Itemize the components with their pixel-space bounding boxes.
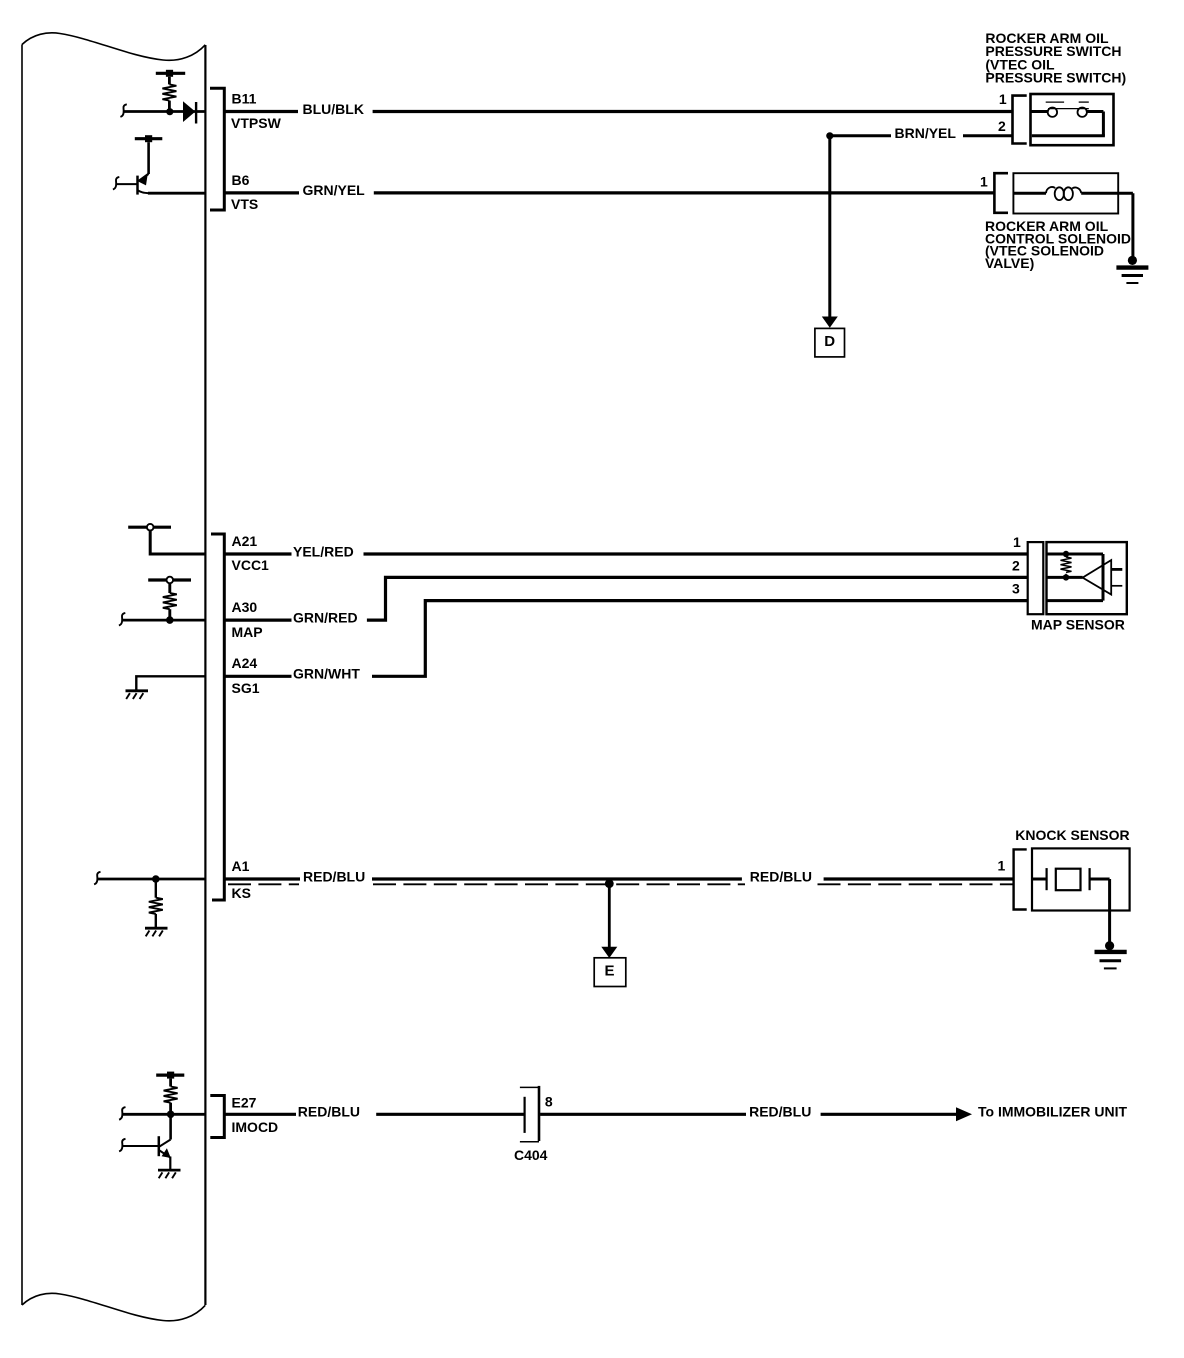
svg-text:1: 1 [998, 858, 1006, 874]
svg-text:3: 3 [1012, 581, 1020, 597]
svg-text:YEL/RED: YEL/RED [293, 543, 354, 559]
svg-text:RED/BLU: RED/BLU [298, 1104, 360, 1120]
svg-text:SG1: SG1 [232, 680, 260, 696]
svg-text:VCC1: VCC1 [232, 557, 270, 573]
svg-text:VTPSW: VTPSW [231, 115, 282, 131]
svg-text:8: 8 [545, 1094, 553, 1110]
svg-text:GRN/WHT: GRN/WHT [293, 666, 360, 682]
svg-text:KS: KS [232, 885, 251, 901]
svg-text:C404: C404 [514, 1147, 548, 1163]
svg-text:VTS: VTS [231, 196, 258, 212]
svg-text:B6: B6 [232, 172, 250, 188]
svg-text:GRN/RED: GRN/RED [293, 609, 358, 625]
svg-text:B11: B11 [232, 90, 257, 106]
svg-text:MAP: MAP [232, 624, 263, 640]
svg-text:RED/BLU: RED/BLU [749, 1104, 811, 1120]
svg-text:1: 1 [999, 91, 1007, 107]
svg-text:A30: A30 [232, 599, 258, 615]
svg-text:BLU/BLK: BLU/BLK [303, 101, 364, 117]
svg-text:A24: A24 [232, 655, 258, 671]
svg-text:1: 1 [1013, 534, 1021, 550]
svg-text:To IMMOBILIZER UNIT: To IMMOBILIZER UNIT [978, 1104, 1127, 1120]
svg-text:2: 2 [998, 118, 1006, 134]
svg-text:RED/BLU: RED/BLU [750, 868, 812, 884]
svg-text:E27: E27 [232, 1095, 257, 1111]
svg-text:BRN/YEL: BRN/YEL [895, 125, 957, 141]
svg-text:KNOCK SENSOR: KNOCK SENSOR [1015, 827, 1129, 843]
svg-text:GRN/YEL: GRN/YEL [303, 182, 366, 198]
svg-text:E: E [604, 963, 614, 980]
svg-text:2: 2 [1012, 558, 1020, 574]
svg-text:RED/BLU: RED/BLU [303, 868, 365, 884]
svg-text:IMOCD: IMOCD [232, 1119, 279, 1135]
svg-text:VALVE): VALVE) [985, 255, 1034, 271]
svg-text:MAP SENSOR: MAP SENSOR [1031, 617, 1125, 633]
svg-text:D: D [824, 333, 835, 350]
svg-text:A21: A21 [232, 533, 258, 549]
svg-text:PRESSURE SWITCH): PRESSURE SWITCH) [985, 70, 1126, 86]
svg-text:A1: A1 [232, 858, 250, 874]
svg-text:1: 1 [980, 174, 988, 190]
